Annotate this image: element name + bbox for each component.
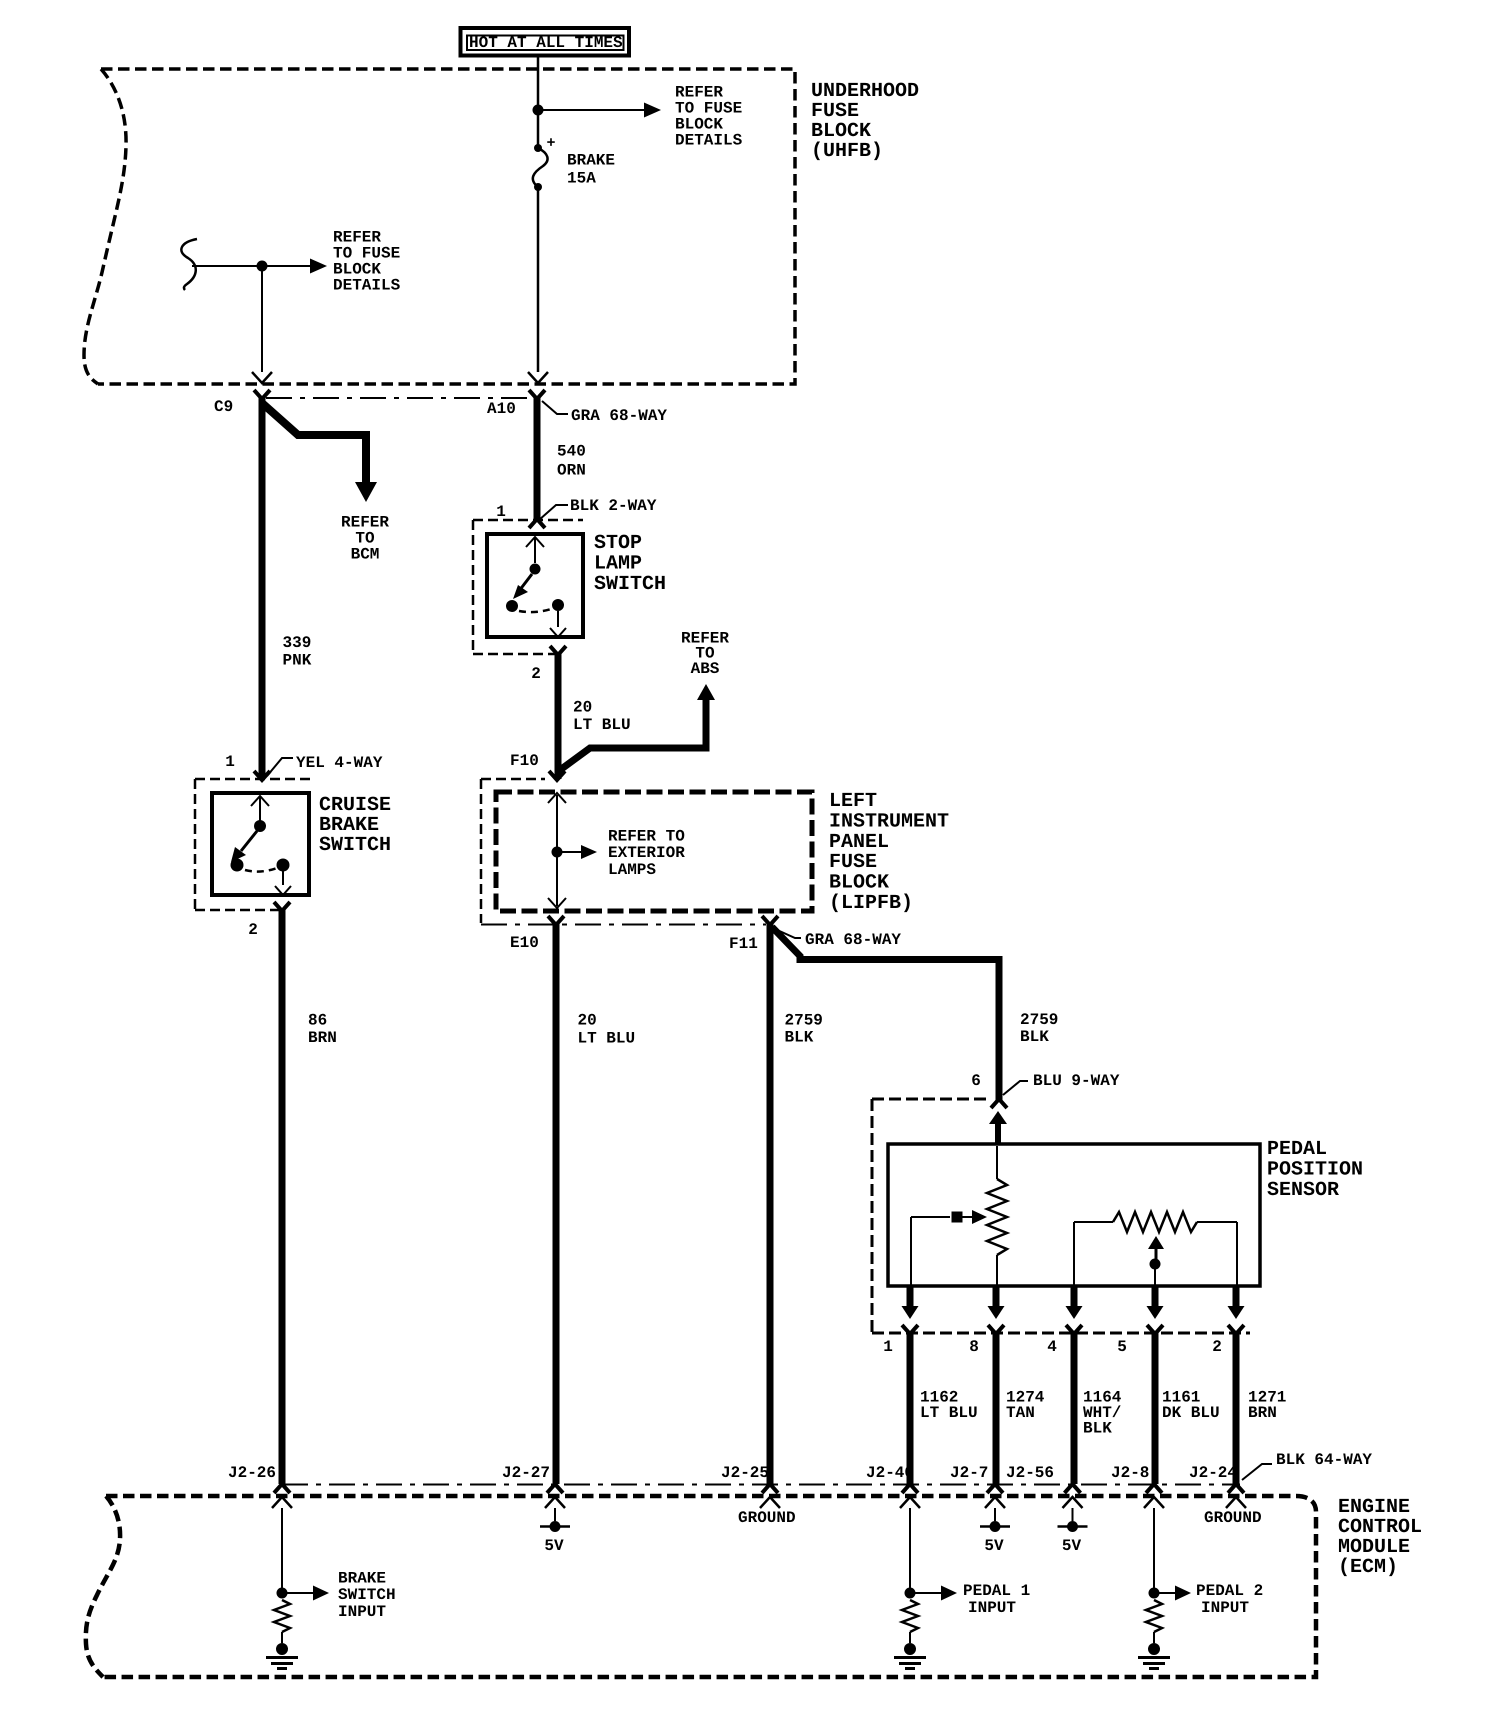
svg-text:20: 20: [578, 1011, 597, 1029]
svg-text:GRA 68-WAY: GRA 68-WAY: [805, 931, 901, 949]
svg-text:LAMPS: LAMPS: [608, 861, 656, 879]
svg-text:J2-8: J2-8: [1111, 1464, 1149, 1482]
svg-text:20: 20: [573, 698, 592, 716]
svg-text:+: +: [546, 135, 555, 152]
svg-text:SENSOR: SENSOR: [1267, 1179, 1339, 1202]
svg-text:J2-40: J2-40: [866, 1464, 914, 1482]
svg-text:LT BLU: LT BLU: [578, 1029, 636, 1047]
svg-text:SWITCH: SWITCH: [338, 1586, 396, 1604]
svg-text:BLU 9-WAY: BLU 9-WAY: [1033, 1072, 1120, 1090]
svg-text:15A: 15A: [567, 169, 596, 187]
svg-text:BRAKE: BRAKE: [567, 151, 615, 169]
svg-text:E10: E10: [510, 934, 539, 952]
svg-text:A10: A10: [487, 400, 516, 418]
svg-text:LT BLU: LT BLU: [573, 716, 631, 734]
svg-text:J2-25: J2-25: [721, 1464, 769, 1482]
svg-text:INPUT: INPUT: [968, 1599, 1016, 1617]
svg-text:(LIPFB): (LIPFB): [829, 892, 913, 915]
svg-text:BRN: BRN: [1248, 1404, 1277, 1422]
svg-text:SWITCH: SWITCH: [319, 834, 391, 857]
svg-text:2759: 2759: [785, 1011, 823, 1029]
svg-text:BRN: BRN: [308, 1029, 337, 1047]
svg-text:LT BLU: LT BLU: [920, 1404, 978, 1422]
svg-text:4: 4: [1047, 1338, 1057, 1356]
svg-text:5V: 5V: [1062, 1537, 1082, 1555]
svg-text:1: 1: [883, 1338, 893, 1356]
svg-text:5: 5: [1117, 1338, 1127, 1356]
svg-text:339: 339: [283, 634, 312, 652]
svg-text:1: 1: [225, 753, 235, 771]
svg-text:J2-7: J2-7: [950, 1464, 988, 1482]
svg-text:BLK 2-WAY: BLK 2-WAY: [570, 497, 657, 515]
svg-text:6: 6: [971, 1072, 981, 1090]
svg-text:86: 86: [308, 1011, 327, 1029]
svg-text:J2-26: J2-26: [228, 1464, 276, 1482]
svg-text:BCM: BCM: [351, 545, 380, 563]
svg-text:ABS: ABS: [691, 660, 720, 678]
svg-text:(ECM): (ECM): [1338, 1556, 1398, 1579]
svg-text:DETAILS: DETAILS: [675, 131, 743, 149]
svg-text:2: 2: [531, 665, 541, 683]
svg-text:GROUND: GROUND: [1204, 1509, 1262, 1527]
svg-text:REFER TO: REFER TO: [608, 827, 685, 845]
svg-text:BLK: BLK: [785, 1028, 814, 1046]
svg-text:540: 540: [557, 442, 586, 460]
svg-text:5V: 5V: [544, 1537, 564, 1555]
svg-text:2759: 2759: [1020, 1011, 1058, 1029]
svg-text:EXTERIOR: EXTERIOR: [608, 844, 685, 862]
svg-text:(UHFB): (UHFB): [811, 140, 883, 163]
svg-text:8: 8: [969, 1338, 979, 1356]
svg-text:SWITCH: SWITCH: [594, 573, 666, 596]
svg-text:J2-56: J2-56: [1006, 1464, 1054, 1482]
svg-text:DK BLU: DK BLU: [1162, 1404, 1220, 1422]
svg-text:INPUT: INPUT: [338, 1603, 386, 1621]
svg-text:BLK: BLK: [1020, 1028, 1049, 1046]
svg-text:GRA 68-WAY: GRA 68-WAY: [571, 407, 667, 425]
svg-text:ORN: ORN: [557, 461, 586, 479]
svg-text:YEL 4-WAY: YEL 4-WAY: [296, 754, 383, 772]
svg-text:5V: 5V: [984, 1537, 1004, 1555]
svg-text:2: 2: [248, 921, 258, 939]
svg-text:J2-27: J2-27: [502, 1464, 550, 1482]
svg-text:F10: F10: [510, 752, 539, 770]
svg-text:J2-24: J2-24: [1189, 1464, 1237, 1482]
svg-text:TAN: TAN: [1006, 1404, 1035, 1422]
svg-text:BLK: BLK: [1083, 1419, 1112, 1437]
svg-text:INPUT: INPUT: [1201, 1599, 1249, 1617]
svg-text:DETAILS: DETAILS: [333, 276, 401, 294]
svg-text:1: 1: [496, 503, 506, 521]
svg-text:F11: F11: [729, 935, 758, 953]
svg-text:C9: C9: [214, 398, 233, 416]
svg-text:PNK: PNK: [283, 651, 312, 669]
svg-text:GROUND: GROUND: [738, 1509, 796, 1527]
svg-text:HOT AT ALL TIMES: HOT AT ALL TIMES: [469, 34, 623, 52]
svg-text:BLK 64-WAY: BLK 64-WAY: [1276, 1451, 1372, 1469]
svg-text:BRAKE: BRAKE: [338, 1569, 386, 1587]
svg-text:2: 2: [1212, 1338, 1222, 1356]
svg-text:PEDAL 2: PEDAL 2: [1196, 1582, 1263, 1600]
svg-text:PEDAL 1: PEDAL 1: [963, 1582, 1030, 1600]
